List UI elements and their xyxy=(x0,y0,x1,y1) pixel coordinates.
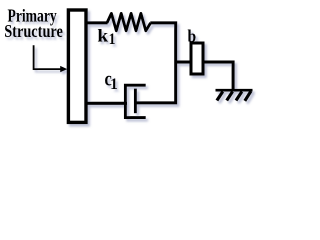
svg-text:1: 1 xyxy=(109,31,116,48)
damper c1 cylinder xyxy=(125,85,145,117)
ground hatch stroke 1 xyxy=(217,92,223,101)
leader arrow from label to primary structure wall xyxy=(34,45,68,72)
wire: damper b to ground (corner) xyxy=(203,62,233,89)
label "Primary Structure" xyxy=(4,7,63,41)
svg-text:k: k xyxy=(97,26,108,46)
damper c1 piston xyxy=(134,89,137,114)
svg-text:1: 1 xyxy=(110,76,118,93)
label k1 xyxy=(97,26,115,49)
ground hatch stroke 2 xyxy=(227,92,233,101)
damper b body xyxy=(191,43,203,74)
svg-text:b: b xyxy=(188,26,197,46)
wire: spring to right bus (top corner) xyxy=(150,23,175,62)
wire: wall to damper c1 cylinder xyxy=(86,102,127,105)
primary structure wall xyxy=(68,10,86,122)
label c1 xyxy=(105,68,118,93)
wire: right bus to damper b xyxy=(176,61,191,64)
label b xyxy=(188,26,197,46)
ground hatch stroke 3 xyxy=(236,92,242,101)
wire: wall to spring k1 xyxy=(86,21,108,24)
spring k1 xyxy=(107,13,151,30)
svg-text:Structure: Structure xyxy=(4,23,63,42)
ground plate xyxy=(216,89,253,92)
ground hatch stroke 4 xyxy=(245,91,251,101)
wire: right bus down to damper c1 rod (bottom corner) xyxy=(135,62,175,103)
